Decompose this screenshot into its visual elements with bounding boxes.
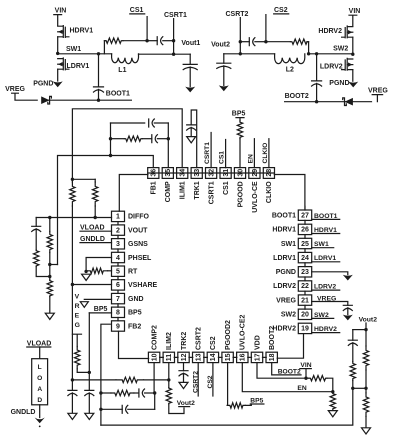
svg-text:16: 16	[240, 353, 247, 361]
diode D1 VREG to BOOT1 (schottky)	[41, 96, 51, 104]
svg-text:PGND: PGND	[276, 269, 296, 276]
ground PGND arrow (channel 2)	[348, 82, 358, 88]
resistor Vout2 divider lower	[363, 393, 368, 417]
junction VREG rail row1	[71, 378, 74, 381]
wire FB2 (pin 9) to comp2 rail	[101, 324, 110, 425]
svg-text:CS1: CS1	[130, 7, 144, 14]
wire comp1 row2 mid	[142, 138, 152, 140]
transistor high-side FET Q3 (HDRV2)	[342, 26, 353, 38]
wire TRK2 (pin 12) to cap	[183, 363, 185, 371]
wire CSRT2 pin stub (bottom)	[197, 363, 199, 396]
wire GND (pin 7)	[84, 298, 111, 300]
underline VIN (bottom)	[300, 368, 311, 370]
svg-text:VIN: VIN	[55, 7, 67, 14]
svg-text:Vout2: Vout2	[211, 41, 230, 48]
junction Vout2 divider top	[364, 328, 367, 331]
svg-text:CLKIO: CLKIO	[266, 181, 273, 203]
svg-text:CLKIO: CLKIO	[262, 143, 269, 164]
svg-text:D: D	[37, 397, 42, 404]
svg-text:ILIM2: ILIM2	[166, 332, 173, 350]
resistor comp2 row1	[116, 377, 144, 382]
power input VIN (channel 1)	[54, 7, 67, 25]
wire comp2 row3 right	[128, 408, 155, 410]
wire Vout2 cap to resistor	[352, 343, 354, 362]
capacitor output C1 (Vout1)	[183, 64, 197, 69]
junction comp2 rail row2	[99, 391, 102, 394]
label HDRV2	[318, 28, 342, 35]
label BP5 (PGOOD2)	[250, 397, 263, 404]
label CS1 (underlined)	[130, 7, 144, 14]
junction comp2 rail row3	[99, 408, 102, 411]
label L2	[286, 66, 294, 73]
wire RT to resistor	[108, 270, 112, 272]
wire VIN stub to node	[305, 369, 307, 379]
svg-text:CS2: CS2	[210, 336, 217, 350]
ground arrow TRK2	[179, 382, 188, 388]
ground arrow VREG cap (right)	[343, 315, 353, 321]
underline VLOAD (load)	[27, 346, 51, 348]
wire VREG (pin 21) to bypass cap	[312, 302, 348, 306]
svg-text:35: 35	[165, 169, 172, 177]
junction Vout2 node	[239, 52, 242, 55]
wire comp2 row3 left	[101, 408, 122, 410]
svg-text:CS1: CS1	[219, 151, 226, 164]
svg-text:SW2: SW2	[281, 312, 296, 319]
wire CS1 stub	[146, 17, 148, 41]
svg-text:CSRT1: CSRT1	[208, 181, 215, 204]
wire comp2 row2 mid	[134, 392, 139, 394]
wire BP5 cap to ground	[88, 393, 90, 413]
svg-text:FB2: FB2	[128, 323, 141, 330]
svg-text:LDRV2: LDRV2	[314, 284, 336, 291]
label VLOAD (load, underlined)	[27, 340, 52, 347]
wire Vout2 divider lower to ground	[365, 416, 367, 427]
wire sense cap to CS2 node	[255, 41, 266, 43]
label LDRV1 (right, underlined)	[312, 255, 340, 262]
svg-text:20: 20	[301, 312, 309, 319]
label VREG (vertical, left rail)	[75, 294, 80, 329]
wire BOOT2 (pin 18) stub	[272, 363, 301, 375]
svg-text:6: 6	[116, 282, 120, 289]
svg-text:A: A	[37, 386, 42, 393]
label Vout2 (top)	[211, 41, 230, 48]
wire comp1 node B to COMP pin	[167, 123, 169, 168]
label CSRT1 (vertical)	[204, 142, 211, 164]
svg-text:32: 32	[208, 169, 215, 177]
wire LDRV1 source to PGND	[57, 69, 59, 81]
terminal stub VREG left	[12, 93, 38, 100]
junction SW1 to BOOT1 cap	[97, 52, 100, 55]
wire ILIM1 resistor right lead	[94, 179, 96, 182]
svg-text:18: 18	[269, 353, 276, 361]
wire Vout2 divider lower lead	[365, 388, 367, 393]
terminal bar VREG to filter resistor	[72, 334, 81, 346]
junction SW1 node	[56, 52, 59, 55]
svg-text:11: 11	[166, 354, 173, 362]
resistor comp1 R	[124, 136, 142, 141]
svg-text:31: 31	[223, 169, 230, 177]
capacitor output C2 (Vout2)	[217, 63, 231, 68]
capacitor feedback C (divider)	[32, 226, 41, 231]
junction CSRT2 tap	[239, 40, 242, 43]
wire VREG cap to ground (right)	[347, 308, 349, 315]
label Vout1	[181, 40, 200, 47]
svg-text:HDRV2: HDRV2	[314, 326, 337, 333]
wire BOOT2 node line	[285, 101, 372, 103]
svg-text:LDRV1: LDRV1	[273, 255, 296, 262]
underline CS2	[274, 13, 289, 15]
label BP5 (PGOOD pull-up)	[232, 110, 246, 117]
wire SW2 rail	[309, 53, 353, 55]
svg-text:22: 22	[301, 283, 309, 290]
svg-text:EN: EN	[297, 385, 306, 392]
svg-text:BOOT2: BOOT2	[285, 93, 309, 100]
svg-text:E: E	[75, 313, 80, 320]
capacitor sense C (channel 2)	[249, 38, 255, 46]
wire comp2 row2 right	[145, 392, 155, 394]
IC U1 pin boxes	[112, 168, 312, 363]
svg-text:36: 36	[151, 169, 158, 177]
wire ILIM1 left resistor down to VSHARE rail	[71, 206, 73, 285]
wire EN resistor corner	[327, 378, 333, 392]
svg-text:CS2: CS2	[274, 7, 288, 14]
label EN (vertical)	[247, 154, 254, 163]
wire VIN FET to SW2 node	[352, 37, 354, 53]
svg-text:GNDLD: GNDLD	[80, 236, 105, 243]
ground arrow TRK1	[187, 137, 196, 143]
capacitor BOOT1	[94, 87, 104, 92]
wire VREG cap to ground	[71, 393, 73, 413]
label EN (bottom)	[297, 385, 306, 392]
junction BP5 rail filter node	[88, 371, 91, 374]
svg-text:8: 8	[116, 310, 120, 317]
svg-text:CSRT2: CSRT2	[196, 327, 203, 350]
svg-text:28: 28	[266, 169, 273, 177]
wire CSRT2 node down to Vout2 rail	[239, 42, 241, 54]
label GNDLD (pin 3, underlined)	[80, 236, 105, 243]
transistor low-side FET Q2 (LDRV1)	[58, 58, 69, 70]
label VLOAD (pin 2, underlined)	[80, 225, 105, 232]
label BOOT2 (channel 2)	[285, 93, 309, 100]
label BOOT1 (channel 1)	[106, 90, 130, 97]
wire bottom ground return	[101, 388, 353, 425]
wire BP5 (pin 8)	[89, 312, 111, 314]
wire BP5 node down to cap	[88, 372, 90, 390]
IC U1 pin chain connectors	[118, 173, 305, 359]
wire Vout2 stub down	[365, 323, 367, 330]
svg-text:1: 1	[116, 214, 120, 221]
svg-text:CS2: CS2	[207, 375, 214, 388]
ground arrow EN pull-down	[328, 411, 337, 417]
wire comp2 row1 right	[144, 379, 169, 381]
wire COMP2 rail (pin 10)	[153, 363, 156, 410]
wire VDD (pin 17) to VIN node	[257, 363, 306, 379]
svg-text:SW1: SW1	[314, 241, 329, 248]
wire load box to ground	[39, 405, 41, 418]
svg-text:24: 24	[301, 255, 309, 262]
svg-text:VREG: VREG	[368, 87, 388, 94]
svg-text:SW1: SW1	[66, 46, 81, 53]
junction BOOT2 node	[315, 100, 318, 103]
svg-text:GNDLD: GNDLD	[11, 409, 36, 416]
svg-text:9: 9	[116, 323, 120, 330]
wire PGOOD resistor to pin	[239, 139, 241, 168]
wire CSRT1 node down to Vout1 rail	[173, 41, 175, 55]
svg-text:V: V	[75, 294, 80, 301]
wire FB1 jog	[50, 264, 58, 266]
label SW1 (right, underlined)	[312, 241, 334, 248]
label CS2 (underlined)	[274, 7, 288, 14]
wire CS2 pin stub (bottom)	[212, 363, 214, 396]
wire GNDLD underline to pin 3	[80, 242, 112, 244]
ground arrow RT/PHSEL	[82, 274, 91, 280]
junction SW2 rail to sense tap	[307, 52, 310, 55]
svg-text:O: O	[37, 375, 42, 382]
svg-text:GND: GND	[128, 296, 144, 303]
wire CSRT2 node to sense cap	[240, 41, 249, 43]
label CSRT2 (top)	[226, 11, 249, 18]
junction CS1 tap	[145, 39, 148, 42]
wire VIN node to EN resistor	[306, 377, 309, 379]
svg-text:EN: EN	[247, 154, 254, 163]
junction comp1 node A row2	[109, 137, 112, 140]
wire ILIM1 resistor pair top	[72, 178, 95, 180]
junction VSHARE to VREG rail	[71, 283, 74, 286]
ground arrow output C1	[185, 87, 195, 93]
svg-text:DIFFO: DIFFO	[128, 214, 150, 221]
wire TRK1 cap to ground	[190, 127, 192, 136]
resistor current-sense R (channel 2)	[290, 39, 308, 44]
svg-text:26: 26	[301, 227, 309, 234]
svg-text:VSHARE: VSHARE	[128, 282, 158, 289]
junction comp1 node B row2	[167, 137, 170, 140]
svg-text:25: 25	[301, 241, 309, 248]
underline Vout2 (ILIM2)	[179, 406, 190, 408]
wire VREG filter resistor to BP5 node	[77, 369, 89, 373]
svg-text:SW2: SW2	[314, 312, 329, 319]
ground arrow feedback divider	[45, 313, 54, 319]
svg-text:VREG: VREG	[317, 296, 336, 303]
resistor ILIM2	[166, 388, 171, 404]
svg-text:VREG: VREG	[5, 86, 25, 93]
wire comp1 row2 left	[111, 138, 125, 140]
label SW1	[66, 46, 81, 53]
wire TRK2 cap to ground	[183, 373, 185, 382]
IC U1 right pin names	[272, 213, 297, 333]
wire TRK1 net	[191, 110, 197, 168]
svg-text:Vout1: Vout1	[181, 40, 200, 47]
wire ILIM2 resistor to Vout2 stub	[169, 404, 184, 414]
underline CS1	[130, 13, 145, 15]
wire sense R to CS1 node	[123, 40, 147, 42]
capacitor BOOT2	[312, 81, 322, 86]
svg-text:G: G	[75, 322, 80, 329]
label HDRV1	[70, 27, 94, 34]
svg-text:PGOOD2: PGOOD2	[225, 320, 232, 350]
ground arrow Vout2 divider	[362, 428, 371, 434]
resistor Vout2 divider upper	[363, 346, 368, 370]
ground arrow output C2	[219, 85, 229, 91]
ground arrow PGND pin 23	[343, 275, 353, 281]
label LDRV2 (right, underlined)	[312, 284, 340, 291]
wire divider mid	[49, 253, 51, 281]
svg-text:BP5: BP5	[232, 110, 246, 117]
svg-text:5: 5	[116, 269, 120, 276]
svg-text:ILIM1: ILIM1	[180, 181, 187, 199]
svg-text:GSNS: GSNS	[128, 241, 148, 248]
wire VLOAD underline to pin 2	[80, 230, 112, 232]
svg-text:SW2: SW2	[333, 46, 348, 53]
inductor L1	[112, 54, 139, 64]
resistor feedback divider (cap branch)	[34, 250, 39, 267]
terminal stub VREG right	[372, 95, 382, 102]
svg-text:15: 15	[225, 353, 232, 361]
wire Vout2 divider upper to node	[365, 370, 367, 388]
svg-text:30: 30	[237, 169, 244, 177]
label HDRV1 (right, underlined)	[312, 227, 340, 234]
svg-text:HDRV2: HDRV2	[318, 28, 342, 35]
label Vout2 (ILIM2)	[177, 400, 195, 407]
svg-text:12: 12	[181, 353, 188, 361]
wire BOOT1 cap to VREG diode line	[98, 89, 100, 100]
wire CSRT1 pin stub	[210, 133, 212, 168]
wire VLOAD to load box	[39, 347, 41, 359]
svg-text:CSRT2: CSRT2	[192, 371, 199, 393]
wire VREG rail to cap	[71, 380, 73, 391]
wire SW1 rail to L1	[58, 53, 112, 55]
wire ILIM1 right resistor to DIFFO wire	[94, 206, 96, 218]
junction FB1 tap	[48, 263, 51, 266]
svg-text:CS1: CS1	[223, 181, 230, 195]
resistor VIN to EN	[309, 376, 327, 381]
svg-text:PGND: PGND	[329, 80, 349, 87]
label CSRT1	[164, 12, 187, 19]
junction Vout2 divider bottom left	[351, 387, 354, 390]
wire VSHARE (pin 6)	[72, 284, 111, 286]
capacitor comp1 C_hf	[149, 119, 155, 127]
power input VIN (channel 2)	[349, 8, 361, 26]
svg-text:29: 29	[252, 169, 259, 177]
resistor current-sense R (channel 1)	[104, 38, 123, 43]
capacitor comp2 C_hf	[122, 405, 128, 413]
svg-text:34: 34	[180, 169, 187, 177]
junction CS2 tap	[264, 40, 267, 43]
capacitor VREG bypass (right)	[343, 305, 352, 310]
diode D2 VREG to BOOT2 (schottky)	[343, 98, 353, 106]
svg-text:27: 27	[301, 213, 309, 220]
label CLKIO (vertical)	[262, 143, 269, 164]
svg-text:R: R	[75, 303, 80, 310]
wire L1 to Vout1 node	[139, 53, 191, 55]
label BOOT1 (right, underlined)	[312, 213, 340, 220]
wire comp1 row1	[111, 122, 145, 124]
svg-text:L2: L2	[286, 66, 294, 73]
junction Vout1 node	[172, 53, 175, 56]
label VREG (right)	[368, 87, 388, 94]
label VREG (left)	[5, 86, 25, 93]
label VREG (right of pin 21)	[317, 296, 336, 303]
wire divider top lead	[49, 218, 51, 232]
label PGND (channel 2)	[329, 80, 349, 87]
svg-text:PGOOD: PGOOD	[237, 181, 244, 207]
svg-text:10: 10	[151, 353, 158, 361]
label SW2 (right, underlined)	[312, 312, 334, 319]
ground signal-ground (load)	[35, 418, 45, 428]
svg-text:LDRV2: LDRV2	[273, 283, 296, 290]
resistor PGOOD pull-up	[237, 121, 242, 139]
wire divider cap branch bottom	[36, 267, 50, 277]
svg-text:17: 17	[254, 353, 261, 361]
wire sense tap up (channel 2)	[307, 42, 309, 54]
wire CLKIO pin stub	[268, 139, 270, 168]
svg-text:13: 13	[196, 353, 203, 361]
svg-text:Vout2: Vout2	[359, 317, 378, 324]
wire PGOOD2 (pin 15)	[226, 363, 229, 406]
svg-text:BOOT2: BOOT2	[278, 368, 301, 375]
svg-text:3: 3	[116, 241, 120, 248]
wire DIFFO net (pin 1)	[36, 217, 111, 219]
resistor Vout2 divider (cap branch)	[350, 362, 355, 381]
wire sense R to CS2 node	[266, 41, 291, 43]
junction SW2 node	[351, 53, 354, 56]
label Vout2 (right)	[359, 317, 378, 324]
underline BP5 (PGOOD2)	[250, 403, 264, 405]
svg-text:PGND: PGND	[33, 80, 53, 87]
load block	[32, 359, 48, 405]
svg-text:VIN: VIN	[349, 8, 361, 15]
junction CSRT1 tap	[172, 39, 175, 42]
junction Vout2 divider bottom right	[364, 387, 367, 390]
svg-text:21: 21	[301, 297, 309, 304]
label BP5 (pin 8)	[94, 306, 108, 313]
label CS1 (vertical)	[219, 151, 226, 164]
junction divider top	[48, 216, 51, 219]
junction SW2 to BOOT2 cap	[315, 52, 318, 55]
svg-text:14: 14	[210, 353, 217, 361]
transistor low-side FET Q4 (LDRV2)	[342, 58, 353, 70]
wire VIN FET to SW1 node	[57, 37, 59, 53]
svg-text:LDRV2: LDRV2	[320, 64, 343, 71]
svg-text:CSRT1: CSRT1	[164, 12, 187, 19]
ground arrow GND pin 7	[80, 302, 88, 308]
svg-text:RT: RT	[128, 269, 138, 276]
svg-text:HDRV1: HDRV1	[70, 27, 94, 34]
svg-text:L1: L1	[118, 67, 126, 74]
junction VIN/VDD node	[304, 377, 307, 380]
wire LDRV2 source to PGND	[352, 70, 354, 82]
wire divider lower to ground	[49, 297, 51, 314]
wire sense cap to CSRT1 node	[163, 40, 174, 42]
junction divider lower	[48, 275, 51, 278]
wire SW2 to BOOT2 cap	[316, 54, 318, 81]
svg-text:LDRV1: LDRV1	[67, 63, 90, 70]
svg-text:SW1: SW1	[281, 241, 296, 248]
label BOOT2 (bottom, underlined)	[278, 368, 301, 375]
resistor VREG filter	[75, 347, 80, 369]
svg-text:VREG: VREG	[276, 297, 296, 304]
wire PHSEL (pin 4) to ground	[86, 258, 111, 272]
wire Vout2 cap branch	[352, 330, 354, 341]
wire ILIM2 rail (pin 11)	[168, 363, 170, 388]
wire UVLO-CE2 (pin 16) EN net	[242, 363, 332, 392]
label SW2	[333, 46, 348, 53]
wire Vout2 to output cap	[223, 54, 225, 63]
inductor L2	[275, 54, 305, 64]
wire Vout1 to output cap	[189, 54, 191, 64]
wire BOOT1 node line	[44, 99, 131, 101]
capacitor VREG bypass	[68, 390, 77, 395]
label VIN (bottom, underlined)	[300, 362, 311, 369]
